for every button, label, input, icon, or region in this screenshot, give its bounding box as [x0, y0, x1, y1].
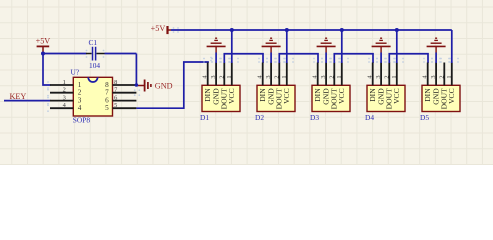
wire +5V rail to D3 VCC — [341, 30, 343, 63]
svg-text:2: 2 — [438, 75, 445, 78]
D4 pin 2 (DOUT) — [383, 63, 393, 110]
svg-text:6: 6 — [114, 95, 117, 102]
capacitor C1 — [86, 47, 105, 61]
svg-text:3: 3 — [320, 75, 327, 78]
LED module D1 body — [202, 85, 240, 111]
IC U? body (SOP8) — [73, 77, 112, 116]
ground symbol above D4 — [372, 38, 391, 52]
junction on +5V rail at D4 — [395, 28, 399, 32]
svg-text:VCC: VCC — [392, 88, 401, 104]
svg-text:3: 3 — [63, 95, 66, 102]
D3 pin 2 (DOUT) — [328, 63, 338, 110]
wire ground to D4 GND pin — [380, 53, 382, 64]
svg-text:+5V: +5V — [151, 24, 166, 33]
D4 pin 3 (GND) — [375, 63, 385, 105]
svg-text:3: 3 — [375, 75, 382, 78]
D3 pin 3 (GND) — [320, 63, 330, 105]
ground symbol above D1 — [207, 38, 226, 52]
D1 pin 2 (DOUT) — [218, 63, 228, 110]
svg-text:1: 1 — [63, 79, 66, 86]
svg-text:3: 3 — [210, 75, 217, 78]
svg-text:2: 2 — [218, 75, 225, 78]
svg-text:3: 3 — [430, 75, 437, 78]
svg-text:D5: D5 — [420, 113, 429, 122]
D1 pin 1 (VCC) — [226, 63, 236, 104]
svg-text:VCC: VCC — [282, 88, 291, 104]
svg-text:D2: D2 — [255, 113, 264, 122]
junction on +5V rail at D3 — [340, 28, 344, 32]
wire ground to D1 GND pin — [215, 53, 217, 64]
svg-text:D4: D4 — [365, 113, 374, 122]
svg-text:5: 5 — [114, 102, 117, 109]
svg-text:D1: D1 — [200, 113, 209, 122]
GND power port at U? pin 8 — [136, 80, 172, 92]
svg-text:1: 1 — [391, 75, 398, 78]
junction on +5V rail at D2 — [285, 28, 289, 32]
U? pin 6 (right) — [105, 95, 136, 105]
ground symbol above D3 — [317, 38, 336, 52]
wire down to U? pin 8 — [135, 54, 137, 86]
U? pin 2 (left) — [50, 87, 82, 97]
svg-text:D3: D3 — [310, 113, 319, 122]
D5 pin 3 (GND) — [430, 63, 440, 105]
svg-text:1: 1 — [226, 75, 233, 78]
+5V rail across top — [171, 29, 452, 31]
wire ground to D5 GND pin — [435, 53, 437, 64]
wire +5V down to U? pin 1 — [43, 54, 51, 86]
svg-text:2: 2 — [78, 89, 82, 97]
wire D2 DOUT to D3 DIN — [279, 54, 318, 63]
svg-text:1: 1 — [446, 75, 453, 78]
D5 pin 1 (VCC) — [446, 63, 456, 104]
svg-text:1: 1 — [281, 75, 288, 78]
D4 pin 4 (DIN) — [367, 63, 377, 102]
LED module D2 body — [257, 85, 295, 111]
U? pin 3 (left) — [50, 95, 82, 105]
U? pin 4 (left) — [50, 102, 82, 112]
svg-text:2: 2 — [383, 75, 390, 78]
wire +5V rail to D5 VCC — [451, 30, 453, 63]
+5V power port (left) — [36, 37, 51, 54]
LED module D4 body — [367, 85, 405, 111]
svg-text:4: 4 — [78, 104, 82, 112]
svg-text:2: 2 — [273, 75, 280, 78]
U? pin 1 (left) — [50, 79, 82, 89]
ground symbol above D5 — [427, 38, 446, 52]
wire D3 DOUT to D4 DIN — [334, 54, 373, 63]
D2 pin 1 (VCC) — [281, 63, 291, 104]
svg-text:8: 8 — [114, 79, 117, 86]
svg-text:3: 3 — [265, 75, 272, 78]
D5 pin 2 (DOUT) — [438, 63, 448, 110]
svg-text:U?: U? — [71, 68, 80, 77]
wire ground to D2 GND pin — [270, 53, 272, 64]
svg-text:SOP8: SOP8 — [73, 116, 91, 125]
svg-text:104: 104 — [89, 61, 100, 70]
svg-text:5: 5 — [105, 104, 109, 112]
LED module D5 body — [422, 85, 460, 111]
svg-text:2: 2 — [63, 87, 66, 94]
ground symbol above D2 — [262, 38, 281, 52]
U? pin 8 (right) — [105, 79, 136, 89]
wire KEY to U? pin 3 — [4, 100, 51, 102]
LED module D3 body — [312, 85, 350, 111]
D2 pin 2 (DOUT) — [273, 63, 283, 110]
svg-text:C1: C1 — [89, 38, 98, 47]
wire D4 DOUT to D5 DIN — [389, 54, 428, 63]
wire C1 to corner — [105, 53, 137, 55]
D3 pin 4 (DIN) — [312, 63, 322, 102]
svg-text:VCC: VCC — [227, 88, 236, 104]
D1 pin 4 (DIN) — [202, 63, 212, 102]
U? pin-1 notch arc — [88, 77, 97, 82]
wire +5V rail to D2 VCC — [286, 30, 288, 63]
U? pin 5 (right) — [105, 102, 136, 112]
junction on +5V rail at D1 — [230, 28, 234, 32]
svg-text:VCC: VCC — [447, 88, 456, 104]
D4 pin 1 (VCC) — [391, 63, 401, 104]
junction at +5V node — [41, 52, 45, 56]
svg-text:VCC: VCC — [337, 88, 346, 104]
svg-text:2: 2 — [328, 75, 335, 78]
U? pin 7 (right) — [105, 87, 136, 97]
faint grid hotspot dots (decorative) — [47, 27, 459, 112]
junction at U? pin 8 / GND node — [135, 83, 139, 87]
svg-text:+5V: +5V — [36, 37, 51, 46]
+5V power port (top rail) — [151, 24, 171, 34]
D2 pin 4 (DIN) — [257, 63, 267, 102]
svg-text:GND: GND — [155, 82, 173, 91]
wire ground to D3 GND pin — [325, 53, 327, 64]
wire D1 DOUT to D2 DIN — [224, 54, 263, 63]
wire +5V to C1 — [43, 53, 87, 55]
D3 pin 1 (VCC) — [336, 63, 346, 104]
wire +5V rail to D1 VCC — [231, 30, 233, 63]
svg-text:1: 1 — [336, 75, 343, 78]
D2 pin 3 (GND) — [265, 63, 275, 105]
D5 pin 4 (DIN) — [422, 63, 432, 102]
D1 pin 3 (GND) — [210, 63, 220, 105]
wire +5V rail to D4 VCC — [396, 30, 398, 63]
svg-text:7: 7 — [105, 89, 109, 97]
wire U? pin 5 to D1 DIN — [136, 62, 208, 108]
